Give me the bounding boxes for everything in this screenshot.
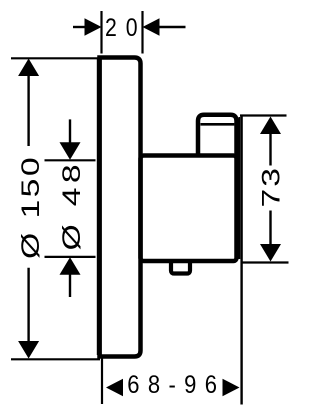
svg-text:68-96: 68-96 — [127, 371, 225, 399]
svg-text:73: 73 — [258, 166, 286, 208]
svg-text:Ø 150: Ø 150 — [17, 155, 45, 259]
svg-text:20: 20 — [105, 13, 146, 41]
svg-text:Ø 48: Ø 48 — [58, 160, 86, 250]
